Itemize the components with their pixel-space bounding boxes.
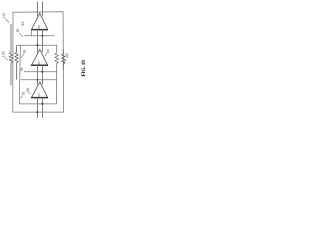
wire pair U1 to U2 (37, 30, 42, 53)
box inner left edge (19, 45, 20, 104)
wire rail A1 (24, 35, 54, 37)
label 100 right with leader (65, 53, 70, 62)
op-amp U3 (bottom amplifier) (31, 82, 48, 98)
node dot on inner box top edge (36, 44, 38, 46)
op-amp U2 (middle amplifier) (31, 49, 48, 65)
svg-text:82: 82 (37, 61, 41, 65)
svg-text:84: 84 (37, 93, 41, 97)
label 98 with leader (left of U2) (21, 50, 26, 58)
svg-text:FIG. 19: FIG. 19 (81, 60, 87, 77)
box outer (module boundary) (13, 12, 64, 112)
node dot on rail B1 (41, 71, 43, 73)
label 86 with leader (near U3) (26, 88, 31, 94)
svg-text:100: 100 (2, 51, 6, 57)
svg-text:100: 100 (65, 53, 69, 59)
svg-text:80: 80 (37, 25, 41, 29)
wire rail B1 (24, 71, 57, 73)
wire output pair bottom (37, 98, 42, 118)
resistor R1 (far left) (9, 24, 12, 86)
box inner bottom edge (19, 103, 56, 105)
node dot on inner box bottom edge (41, 103, 43, 105)
svg-text:86: 86 (26, 88, 30, 92)
label 84 with leader (right of U2) (45, 49, 50, 56)
svg-text:82: 82 (21, 22, 25, 26)
svg-text:96: 96 (16, 28, 20, 32)
op-amp U1 (top amplifier) (31, 13, 48, 29)
box inner top edge (rail) (17, 44, 57, 46)
wire input pair top (37, 2, 42, 17)
node dot on rail A1 (41, 35, 43, 37)
label 110 with leader (2, 13, 9, 23)
resistor R2 (left inner) (15, 45, 18, 80)
svg-text:84: 84 (46, 49, 50, 53)
label 92 with leader (bottom left inside) (21, 91, 26, 98)
box inner right edge with resistor R4 in it (55, 45, 58, 104)
wire stub left of U1 base (30, 30, 32, 36)
svg-text:98: 98 (22, 50, 26, 54)
resistor R5 (on outer box right edge) (62, 49, 65, 70)
label 96 with leader (16, 28, 23, 36)
node dot on outer box bottom edge (36, 111, 38, 113)
label 100 left with leader (2, 51, 8, 60)
wire pair U2 to U3 (37, 65, 42, 84)
wire rail B2 (21, 79, 57, 81)
node dot on rail B2 (36, 79, 38, 81)
svg-text:110: 110 (2, 13, 6, 19)
background (0, 0, 89, 120)
svg-text:94: 94 (20, 67, 24, 71)
